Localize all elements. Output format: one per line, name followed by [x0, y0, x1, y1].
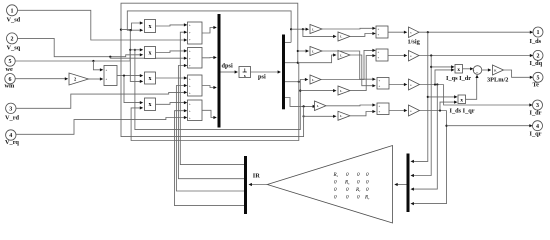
mux I (bar) [407, 154, 410, 213]
arrow into B1 [333, 35, 336, 38]
sum block S1 [376, 26, 388, 38]
arrow into XP1 in1 [451, 65, 454, 68]
wire S4 to G4 [389, 110, 405, 112]
arrow into X4 in2 [140, 106, 143, 109]
wire A1 out to S1 in1 [322, 27, 374, 30]
arrow into XP2 in1 [454, 95, 457, 98]
svg-text:3: 3 [536, 103, 539, 109]
wire Imux out to matrix triangle [396, 184, 407, 186]
node row3 feed tap [134, 49, 136, 51]
wire to port 4 [447, 125, 532, 127]
wire SR1 out to mux [202, 28, 215, 34]
svg-text:+: + [189, 38, 191, 42]
arrow into gain2 [65, 77, 68, 80]
wire we to sum2 in1 [93, 61, 101, 70]
arrow into SR1 in1 [184, 23, 187, 26]
arrow into B2 [333, 53, 336, 56]
wire demux out4 to A4 [285, 98, 315, 107]
arrow into G1 [404, 31, 407, 34]
svg-text:+: + [189, 109, 191, 113]
wire B3 out up to S2 in2 [350, 56, 374, 91]
svg-text:V_sd: V_sd [7, 17, 21, 24]
svg-text:L: L [340, 53, 342, 57]
wire to XP2 in1 [428, 96, 456, 98]
svg-text:L: L [312, 27, 314, 31]
arrow into SR2 in3 [184, 64, 187, 67]
wire wm to gain2 [15, 78, 66, 80]
arrow into S4 in2 [372, 110, 375, 113]
demux psi (bar) [282, 35, 285, 110]
node B3 feed [299, 90, 301, 92]
gain G3 [409, 79, 420, 90]
svg-text:Rr: Rr [355, 187, 361, 193]
gain TG 3PLm/2 [487, 65, 508, 84]
sum circle [473, 66, 482, 76]
integrator 1/s [239, 67, 251, 79]
arrow into SR1 in2 [184, 31, 187, 34]
arrow into SR2 in2 [184, 57, 187, 60]
svg-text:+: + [189, 64, 191, 68]
arrow into X3 in2 [140, 80, 143, 83]
gain B4 [338, 111, 350, 120]
wire top outer feedback [121, 3, 304, 136]
arrow into mux in2 [213, 56, 216, 59]
svg-text:IR: IR [253, 173, 260, 180]
wire XP2 out up to sum circle [466, 77, 477, 100]
wire B1 feed [303, 29, 335, 36]
svg-text:Te: Te [533, 82, 540, 89]
sum block SR2 [188, 48, 203, 69]
wire sum circle to gain TG [481, 69, 489, 71]
wire we [15, 50, 130, 61]
input port 3 V_rd [5, 103, 19, 121]
wire XP1 out to sum circle [463, 68, 472, 70]
svg-text:3: 3 [9, 106, 12, 112]
wire TG out to port 5 [504, 70, 532, 77]
svg-text:2: 2 [11, 37, 14, 43]
svg-text:+: + [378, 27, 380, 31]
node XP2 in1 feed [427, 96, 429, 98]
svg-text:V_rq: V_rq [5, 139, 19, 146]
arrow into X3 in1 [140, 74, 143, 77]
svg-text:x: x [457, 67, 460, 73]
svg-text:+: + [189, 116, 191, 120]
wire IR feedback 3 [176, 86, 244, 192]
svg-text:+: + [189, 78, 191, 82]
svg-text:+: + [189, 92, 191, 96]
wire A2 feed [298, 50, 307, 52]
wire psi row3 feed riser [135, 50, 306, 130]
arrow into port3 [529, 103, 532, 106]
arrow into demux [278, 70, 281, 73]
wire sum2 out to X3 in1 [117, 75, 141, 77]
wire X2 out to SR2 in1 [156, 51, 187, 53]
gain B2 [338, 51, 350, 60]
output port 2 I_dq [530, 50, 544, 67]
svg-text:we: we [6, 66, 14, 73]
node G2 branch [430, 54, 432, 56]
svg-text:wm: wm [5, 83, 16, 90]
svg-text:I_dr: I_dr [530, 110, 542, 117]
wire G3 out [420, 84, 444, 86]
wire matrix out to IR demux [250, 184, 268, 186]
svg-text:x: x [149, 102, 152, 108]
wire to XP1 in1 [431, 66, 453, 68]
wire sum2 branch down to X4 in1 [124, 76, 141, 103]
wire V_sd [17, 10, 186, 40]
wire stub to B4 [304, 115, 335, 117]
svg-text:+: + [189, 57, 191, 61]
input port 6 wm [5, 74, 16, 90]
node X2 in1 feed [129, 49, 131, 51]
wire A3 out up to S2 in1 [321, 50, 374, 79]
arrow into B4 [333, 115, 336, 118]
wire B4 out to S4 in2 [350, 112, 374, 116]
wire G2 out to port 2 [419, 55, 532, 57]
gain B1 [338, 32, 350, 41]
node B4 feed [303, 115, 305, 117]
svg-text:Rs: Rs [344, 180, 350, 186]
wire IR feedback 2 [178, 66, 244, 179]
arrow up into sum circle [475, 75, 478, 78]
svg-text:x: x [149, 50, 152, 56]
arrow into Imux in1 [411, 160, 414, 163]
wire vertical I_dr to Imux [412, 85, 437, 190]
svg-text:+: + [106, 78, 108, 82]
svg-text:V_rd: V_rd [5, 115, 19, 122]
arrow into A3 [305, 78, 308, 81]
wire S2 to G2 [388, 55, 405, 57]
svg-text:L: L [317, 104, 319, 108]
arrow into SR4 in1 [184, 101, 187, 104]
arrow into S3 in2 [372, 84, 375, 87]
svg-text:1/sig: 1/sig [408, 39, 421, 46]
node I_qr to port4 [445, 125, 447, 127]
node sum2 out branch [123, 75, 125, 77]
arrow into S4 in1 [372, 103, 375, 106]
wire V_sq [17, 38, 141, 56]
wire B2 feed [298, 55, 335, 63]
arrow into port4 [529, 124, 532, 127]
svg-text:I_qs I_dr: I_qs I_dr [446, 75, 471, 82]
product block X2 [145, 47, 156, 59]
svg-text:+: + [106, 68, 108, 72]
svg-text:x: x [149, 24, 152, 30]
wire IR feedback 1 [180, 32, 244, 164]
node demux out2 joins vertical [297, 62, 299, 64]
gain G1 1/sig [408, 27, 421, 46]
arrow into integrator [235, 70, 238, 73]
arrow into mux in3 [213, 86, 216, 89]
wire S1 to G1 [388, 31, 405, 33]
arrow into port1 [530, 31, 533, 34]
svg-text:2: 2 [537, 54, 540, 60]
wire X1 out to SR1 in1 [156, 25, 187, 26]
arrow into XP1 in2 [451, 68, 454, 71]
input port 5 we [5, 56, 15, 73]
arrow into SR3 in2 [184, 84, 187, 87]
wire B2 out down to S3 in2 [350, 55, 374, 86]
svg-text:dpsi: dpsi [222, 63, 233, 70]
wire integrator out to demux [251, 71, 280, 73]
node XP1 in1 feed [430, 66, 432, 68]
product block XP1 [446, 65, 471, 83]
arrow into matrix triangle [394, 183, 397, 186]
arrow into S3 in1 [372, 78, 375, 81]
svg-text:L: L [312, 78, 314, 82]
wire mux out to integrator [221, 71, 237, 73]
wire I_dr corner to port 3 [444, 85, 531, 106]
input port 1 V_sd [7, 5, 21, 24]
wire SR4 out to mux [202, 110, 215, 117]
wire vertical psi feed [130, 30, 141, 81]
node A1 feed [290, 28, 292, 30]
wire demux out1 [285, 41, 291, 43]
arrow into SR2 in1 [184, 49, 187, 52]
wire A2 out down to S3 in1 [322, 51, 374, 79]
gain A1 [310, 25, 322, 34]
arrow into A4 [313, 105, 316, 108]
svg-text:5: 5 [537, 75, 540, 81]
arrow into S1 in2 [372, 32, 375, 35]
svg-text:L: L [340, 89, 342, 93]
input port 2 V_sq [7, 33, 21, 52]
arrow into mux in1 [213, 26, 216, 29]
arrow into A1 [306, 28, 309, 31]
arrow into Imux in2 [411, 174, 414, 177]
wire gain2 out to sum2 in2 [89, 78, 102, 80]
svg-text:+: + [189, 31, 191, 35]
arrow into G3 [404, 83, 407, 86]
wire vertical I_ds feed [412, 32, 428, 161]
wire V_sq branch to SR2 in2 [110, 57, 186, 59]
arrow into S1 in1 [372, 27, 375, 30]
gain A4 [315, 101, 327, 111]
arrow into Imux in4 [411, 202, 414, 205]
wire SR3 out to mux [202, 86, 215, 88]
node demux out3 joins vertical [298, 81, 300, 83]
mux dpsi (bar) [218, 14, 221, 128]
svg-text:+: + [378, 33, 380, 37]
arrow into X2 in2 [140, 53, 143, 56]
svg-text:+: + [379, 84, 381, 88]
svg-text:I_dq: I_dq [530, 60, 543, 67]
svg-text:Rs: Rs [333, 172, 339, 178]
wire vertical I_qr to Imux [412, 111, 447, 204]
svg-text:x: x [460, 97, 463, 103]
wire feedback down to X4 in2 [131, 63, 299, 141]
wire demux out2 [285, 62, 298, 64]
demux IR (bar) [244, 156, 247, 214]
arrow into port2 [530, 54, 533, 57]
arrow into Imux in3 [411, 188, 414, 191]
svg-text:I_ds: I_ds [530, 38, 542, 45]
gain block 2 (triangle) [69, 73, 89, 85]
arrow into S2 in1 [372, 49, 375, 52]
wire IR feedback 4 [175, 111, 245, 206]
node top outer to X1 branch [120, 29, 122, 31]
node on V_sq branch [109, 56, 111, 58]
svg-text:+: + [378, 56, 380, 60]
svg-text:+: + [379, 104, 381, 108]
node G3 branch to XP1 [434, 83, 436, 85]
arrow into SR3 in3 [184, 91, 187, 94]
gain G2 [409, 51, 420, 62]
wire A1 feed [291, 28, 307, 30]
arrow into sum2 in2 [100, 77, 103, 80]
svg-text:L: L [340, 114, 342, 118]
product block X3 [145, 72, 156, 84]
wire branch to X1 in1 [121, 23, 141, 30]
wire vertical up to XP2 in2 [440, 102, 456, 110]
svg-text:s: s [244, 73, 246, 78]
wire B1 out to S1 in2 [350, 34, 374, 37]
svg-text:+: + [189, 50, 191, 54]
arrow into IR demux [249, 183, 252, 186]
arrow into XP2 in2 [454, 101, 457, 104]
svg-text:Rr: Rr [364, 195, 370, 201]
svg-text:4: 4 [536, 124, 539, 130]
svg-text:V_sq: V_sq [7, 45, 21, 52]
output port 3 I_dr [530, 100, 543, 117]
svg-text:1: 1 [11, 8, 14, 14]
node G3 branch to Imux [436, 83, 438, 85]
svg-text:+: + [189, 24, 191, 28]
node A2 feed [297, 50, 299, 52]
svg-text:+: + [189, 102, 191, 106]
svg-text:−: − [476, 70, 479, 75]
output port 5 Te [533, 72, 544, 88]
wire top inner feedback [127, 11, 291, 43]
arrow into mux in4 [213, 116, 216, 119]
input port 4 V_rq [5, 130, 19, 146]
svg-text:5: 5 [9, 59, 12, 65]
wire stub to X2 in1 [130, 49, 141, 51]
arrow into X4 in1 [140, 101, 143, 104]
arrow into G2 [404, 54, 407, 57]
svg-text:x: x [149, 76, 152, 82]
svg-text:3PLm/2: 3PLm/2 [487, 77, 508, 84]
node G4 branch to XP2 [439, 109, 441, 111]
wire SR2 out to mux [202, 57, 215, 59]
svg-text:I_ds I_qr: I_ds I_qr [450, 108, 475, 115]
arrow into G4 [404, 109, 407, 112]
arrow into sum2 in1 [100, 68, 103, 71]
svg-text:L: L [312, 49, 314, 53]
arrow into X2 in1 [140, 48, 143, 51]
wire V_rd [16, 92, 186, 108]
wire stub to B3 [300, 90, 334, 92]
output port 1 I_ds [530, 27, 544, 45]
sum block S4 [377, 103, 389, 115]
sum block SR3 [188, 75, 203, 96]
product block X1 [145, 20, 156, 33]
sum block SR1 [188, 22, 203, 44]
arrow into X1 in2 [140, 29, 143, 32]
wire demux out3 stub [285, 81, 299, 83]
wire V_rq [16, 118, 186, 135]
arrow into X1 in1 [140, 21, 143, 24]
wire G1 out to port 1 [419, 31, 532, 33]
wire X3 out to SR3 in1 [156, 77, 187, 79]
sum block sum2 [104, 66, 117, 86]
arrow into TG [488, 68, 491, 71]
wire vertical up to XP1 in2 [435, 70, 453, 85]
svg-text:+: + [379, 110, 381, 114]
svg-text:1: 1 [537, 30, 540, 36]
sum block S2 [376, 49, 388, 61]
svg-text:+: + [473, 69, 475, 73]
arrow into SR3 in1 [184, 76, 187, 79]
arrow into port5 [530, 76, 533, 79]
wire G4 out [420, 110, 447, 112]
svg-text:I_qr: I_qr [530, 131, 542, 138]
wire A4 out to S4 in1 [326, 104, 374, 107]
wire S3 to G3 [389, 84, 405, 86]
svg-text:+: + [189, 85, 191, 89]
product block X4 [145, 98, 156, 111]
matrix gain triangle R [267, 146, 392, 224]
node inner feed branch [130, 29, 132, 31]
gain A2 [310, 47, 322, 56]
product block XP2 [450, 95, 475, 115]
gain G4 [409, 105, 420, 116]
svg-text:L: L [340, 35, 342, 39]
node B1 branch [302, 28, 304, 30]
gain B3 [338, 86, 350, 95]
arrow into SR1 in3 [184, 38, 187, 41]
arrow into SR4 in3 [184, 116, 187, 119]
arrow into SR4 in2 [184, 109, 187, 112]
wire X4 out to SR4 in1 [156, 103, 187, 105]
sum block SR4 [188, 100, 203, 121]
svg-text:psi: psi [258, 74, 266, 81]
svg-text:+: + [379, 79, 381, 83]
node A4 feed junction [303, 105, 305, 107]
node we junction [92, 60, 94, 62]
arrow into A2 [306, 49, 309, 52]
node G1 branch [427, 31, 429, 33]
wire vertical I_qs feed [412, 56, 431, 176]
arrow into S2 in2 [372, 54, 375, 57]
sum block S3 [377, 78, 389, 90]
gain A3 [310, 75, 321, 84]
svg-text:+: + [378, 50, 380, 54]
arrow into B3 [333, 89, 336, 92]
arrow into sum circle [470, 67, 473, 70]
output port 4 I_qr [530, 121, 543, 138]
